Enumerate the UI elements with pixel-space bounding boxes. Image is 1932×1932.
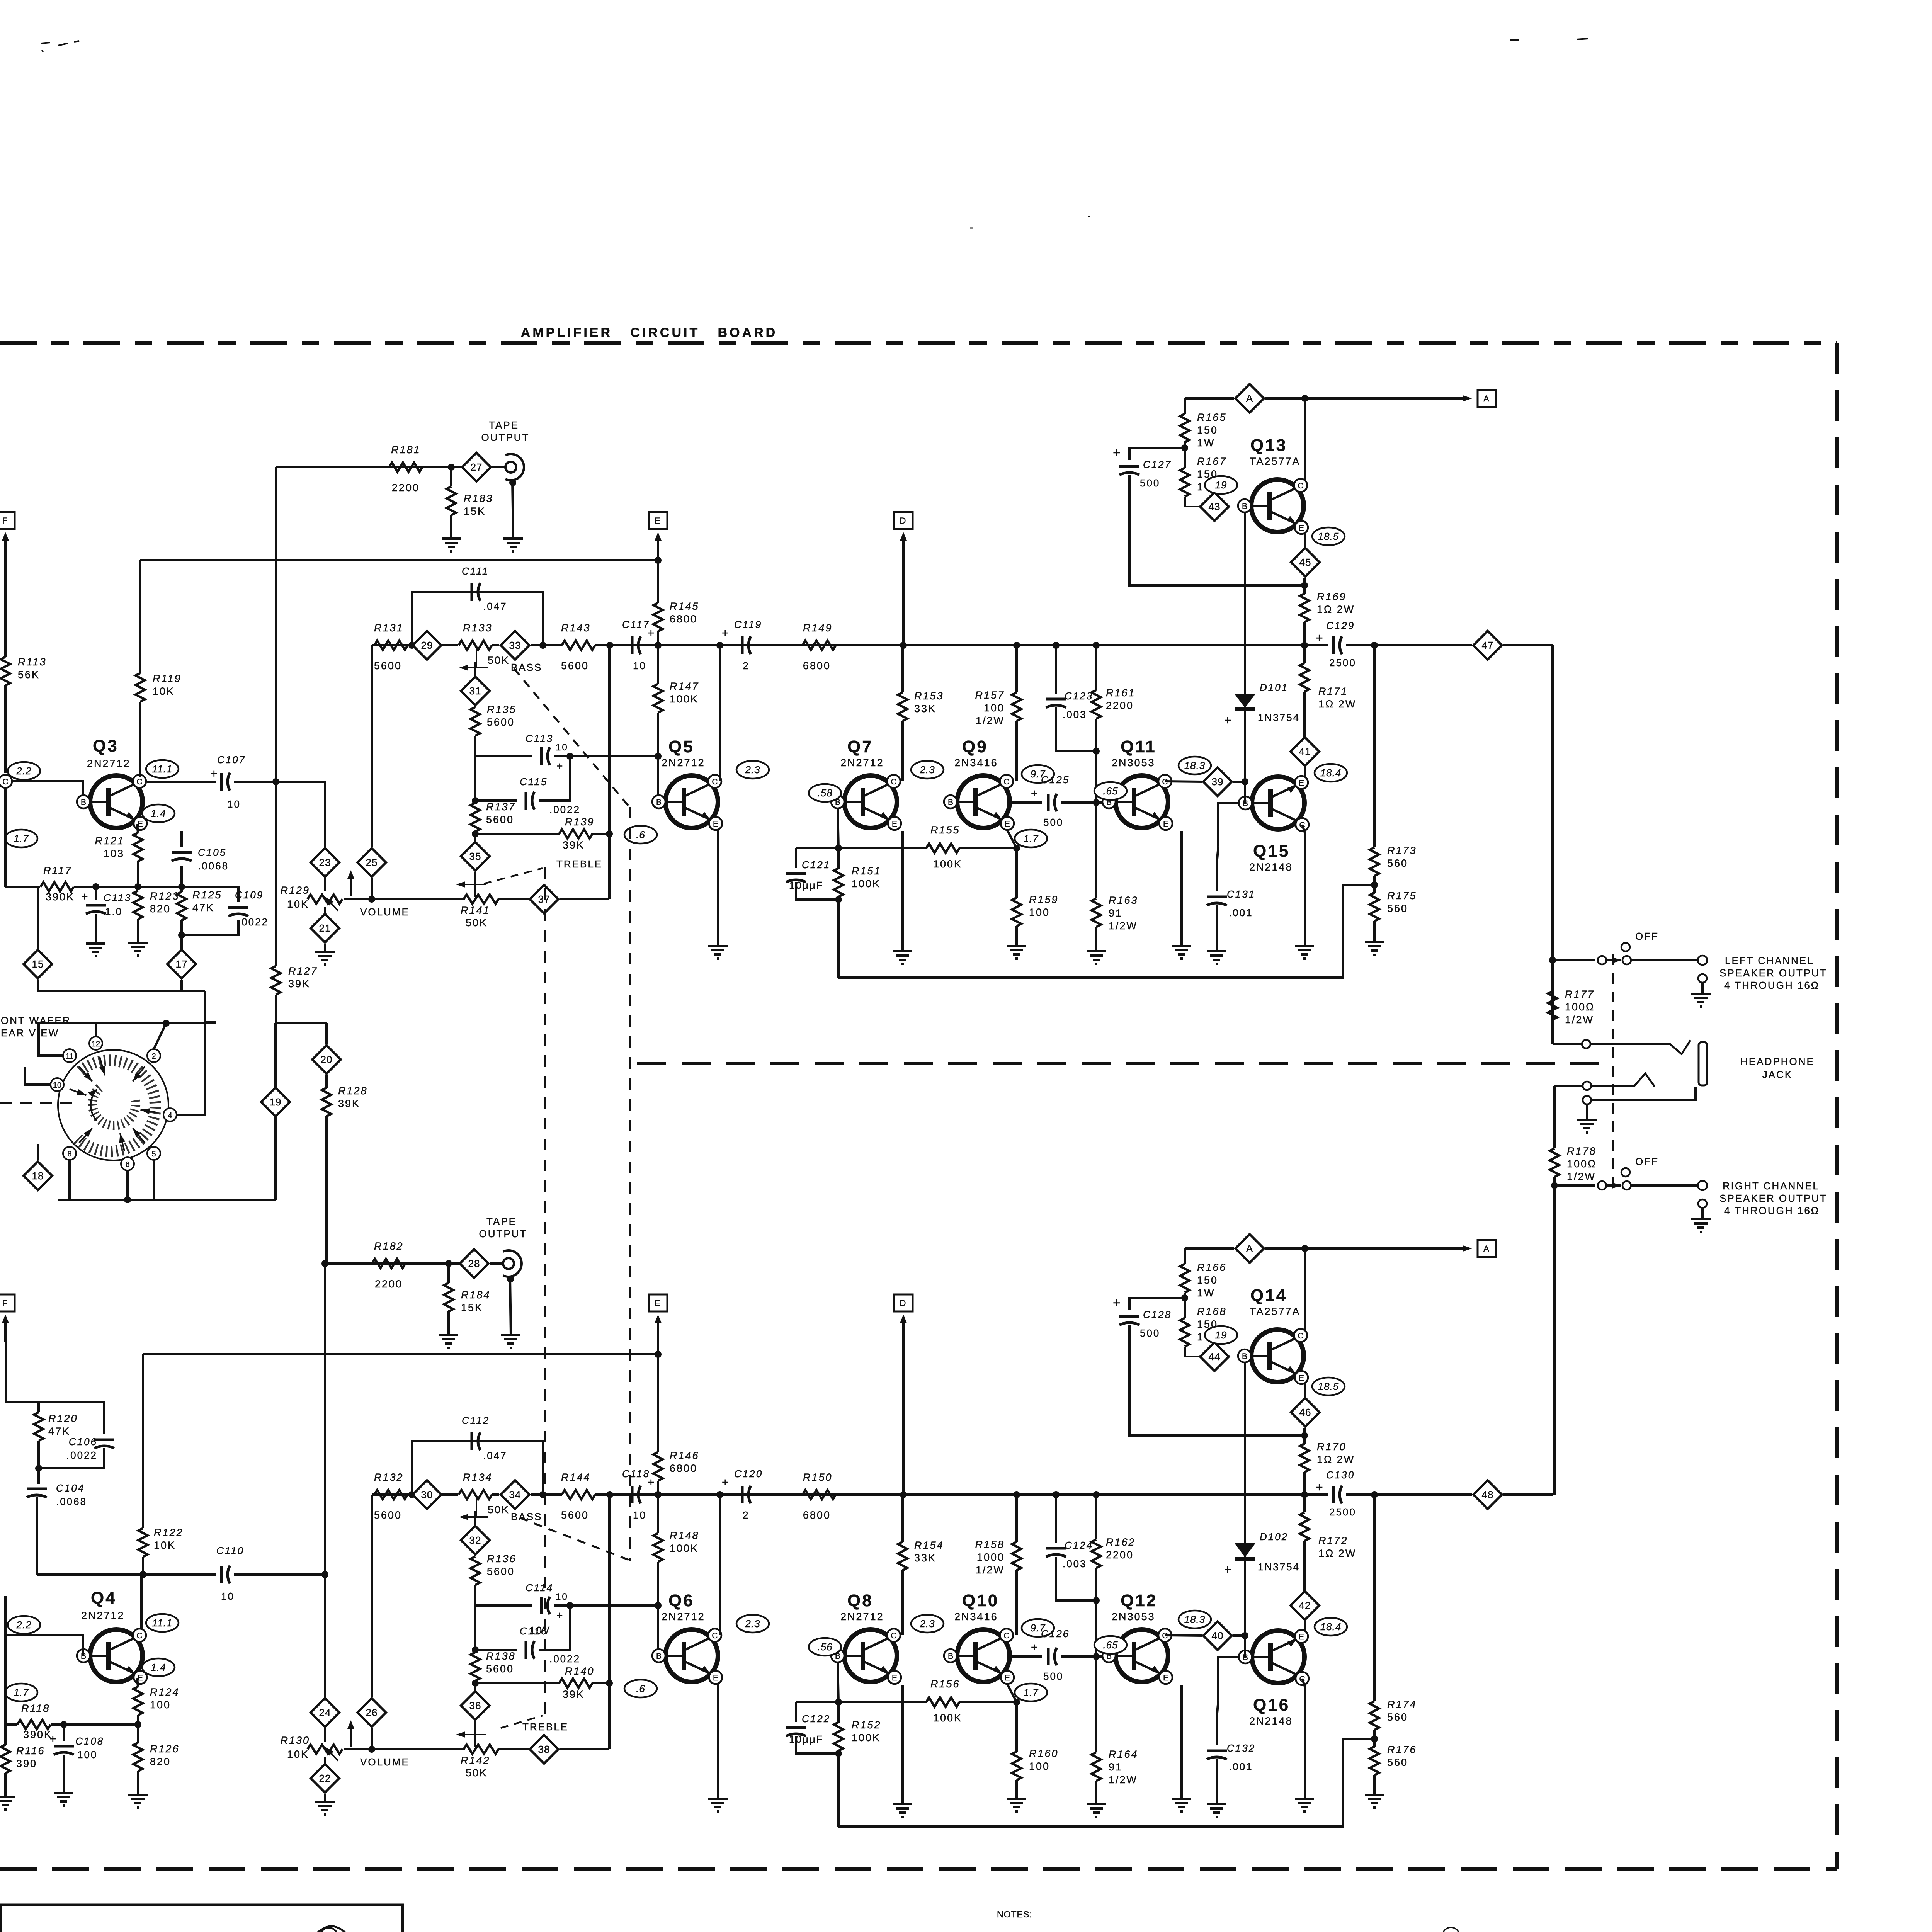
svg-text:R184: R184: [461, 1289, 491, 1301]
resistor R126: [133, 1725, 180, 1795]
resistor R146: [653, 1354, 699, 1495]
svg-text:100K: 100K: [852, 1732, 881, 1743]
wire R125 top: [138, 886, 182, 888]
junction R151 top: [835, 845, 842, 852]
svg-text:R130: R130: [280, 1735, 310, 1746]
connecting diamond 22: [311, 1757, 339, 1793]
treble gang dashes bottom: [501, 1716, 568, 1733]
resistor R128: [322, 1075, 368, 1264]
wire Q15 C down: [1302, 1679, 1305, 1799]
svg-text:E: E: [892, 820, 897, 828]
arrow to box D: [900, 1315, 907, 1495]
ground Q7 emitter: [893, 831, 912, 964]
connecting diamond 42: [1291, 1591, 1319, 1620]
capacitor C126 body: [1031, 1628, 1103, 1682]
connecting diamond 20: [312, 1045, 341, 1074]
svg-text:C: C: [2, 777, 8, 786]
transistor Q5: [652, 737, 722, 830]
svg-text:R152: R152: [852, 1719, 881, 1731]
svg-text:E: E: [713, 1673, 718, 1682]
svg-text:50K: 50K: [466, 1767, 488, 1779]
svg-text:+: +: [1031, 787, 1039, 800]
wire diamond to Q15 junction: [1233, 781, 1245, 783]
junction R165/R167: [1181, 444, 1188, 451]
wire diamond 15 up: [37, 887, 39, 949]
wire hp2 left: [1554, 1085, 1583, 1087]
junction D101/Q15: [1242, 1632, 1248, 1639]
junction R122/C110 row: [139, 1571, 146, 1578]
svg-text:+: +: [648, 1476, 656, 1489]
svg-text:390K: 390K: [23, 1729, 52, 1740]
svg-text:11.1: 11.1: [152, 763, 173, 775]
wire right speaker out: [1631, 1184, 1698, 1187]
transistor Q10: [944, 1591, 1014, 1684]
resistor R159: [1012, 846, 1059, 946]
wire diamond 37 right: [560, 898, 609, 900]
svg-text:.0022: .0022: [549, 804, 580, 815]
junction R165/R167: [1181, 1294, 1188, 1301]
wire main bus 2: [442, 1493, 458, 1496]
svg-text:R116: R116: [16, 1745, 45, 1757]
connecting diamond 44: [1185, 1342, 1229, 1371]
wire main bus 4: [531, 1493, 562, 1496]
svg-text:E: E: [1163, 1673, 1168, 1682]
svg-text:4: 4: [168, 1111, 172, 1120]
svg-text:.0068: .0068: [56, 1496, 87, 1507]
svg-text:100: 100: [1029, 906, 1050, 918]
resistor R151: [834, 848, 881, 900]
wire main bus 3: [492, 1493, 499, 1496]
svg-text:+: +: [1316, 1480, 1324, 1494]
svg-text:R117: R117: [43, 865, 72, 876]
svg-text:C104: C104: [56, 1482, 85, 1494]
voltage oval .6 at Q6 B: [624, 1680, 657, 1697]
junction bus/C117: [606, 1491, 613, 1498]
arrow to box D: [900, 532, 907, 645]
junction bus/R157: [1013, 642, 1020, 649]
wire tape output feed: [325, 1262, 459, 1265]
voltage oval 11.1 Q3 C: [146, 760, 179, 778]
wire bus to speaker column: [1503, 1493, 1553, 1496]
svg-text:19: 19: [270, 1096, 282, 1108]
front wafer label: [1, 1015, 71, 1039]
connecting diamond 36: [461, 1683, 490, 1720]
resistor R113: [1, 656, 47, 773]
svg-text:1.0: 1.0: [105, 906, 122, 917]
notes heading: [997, 1909, 1032, 1919]
switch circle R1: [1598, 1181, 1606, 1190]
diode D101: [1224, 507, 1300, 782]
svg-text:100: 100: [77, 1749, 97, 1760]
diode D102: [1224, 1357, 1300, 1636]
svg-text:39K: 39K: [288, 978, 310, 990]
resistor R140: [475, 1665, 609, 1700]
svg-text:100K: 100K: [670, 693, 699, 705]
svg-text:NOTES:: NOTES:: [997, 1909, 1032, 1919]
wire d23 to pot: [324, 878, 326, 891]
junction tape: [445, 1260, 452, 1267]
wire Q7 B down: [838, 808, 838, 848]
wire B+ feed: [140, 559, 658, 561]
channel divider dashed line: [637, 1062, 1613, 1065]
wire volume row: [344, 1748, 464, 1750]
headphone spring bottom: [1591, 1073, 1655, 1087]
wire Q15 B feedback: [1218, 1657, 1239, 1700]
svg-text:39K: 39K: [338, 1098, 360, 1109]
svg-text:B: B: [656, 1652, 662, 1661]
svg-text:R122: R122: [154, 1527, 184, 1538]
wire main bus 6: [1245, 1493, 1328, 1496]
svg-text:10: 10: [221, 1590, 235, 1602]
ground right speaker: [1691, 1208, 1711, 1232]
svg-text:39K: 39K: [563, 1689, 585, 1700]
TO-3 case outline: [276, 1926, 384, 1932]
voltage oval 2.3 at Q5 C: [736, 761, 769, 779]
wire Q13 C up: [1304, 1248, 1306, 1330]
svg-text:R129: R129: [280, 884, 310, 896]
svg-text:6800: 6800: [670, 613, 697, 625]
wire wafer pin8: [68, 1160, 71, 1200]
svg-text:EAR VIEW: EAR VIEW: [1, 1027, 59, 1039]
svg-text:5600: 5600: [561, 660, 589, 672]
contact circle hp1: [1582, 1040, 1590, 1048]
junction tape: [448, 464, 455, 471]
wire wafer pin2: [154, 1023, 166, 1049]
svg-text:C: C: [891, 777, 896, 786]
wire to bottom bus: [837, 900, 840, 978]
resistor R136: [471, 1553, 517, 1585]
svg-text:50K: 50K: [466, 917, 488, 929]
svg-text:R150: R150: [803, 1471, 833, 1483]
svg-text:100K: 100K: [933, 858, 962, 870]
svg-text:.0068: .0068: [198, 860, 229, 872]
connecting diamond 40: [1203, 1621, 1232, 1650]
wire diamond 17 up: [180, 935, 183, 949]
transistor Q8: [831, 1591, 901, 1684]
voltage oval 18.5: [1312, 527, 1345, 545]
svg-text:.56: .56: [817, 1641, 832, 1653]
wire diamond19 down: [274, 1117, 277, 1200]
svg-text:1/2W: 1/2W: [1109, 920, 1138, 932]
capacitor C116: [520, 1625, 580, 1665]
voltage oval 18.4: [1315, 1618, 1347, 1636]
svg-text:E: E: [1299, 779, 1304, 787]
resistor R150: [803, 1471, 836, 1521]
wire tape-2 vertical: [324, 1264, 326, 1575]
resistor R184: [444, 1264, 491, 1335]
svg-text:2200: 2200: [375, 1278, 403, 1290]
capacitor C126: [1012, 1655, 1042, 1658]
junction R121/R123: [134, 883, 141, 890]
svg-text:C113: C113: [526, 733, 553, 744]
voltage oval 11.1 Q4: [146, 1614, 179, 1632]
dashed border right: [1835, 343, 1839, 1869]
note 7: [1425, 1927, 1758, 1932]
svg-text:C109: C109: [235, 889, 264, 901]
connecting diamond 41: [1291, 737, 1319, 766]
svg-text:10K: 10K: [287, 1748, 309, 1760]
wafer pin 6: [117, 1133, 134, 1170]
voltage oval 19: [1205, 1326, 1237, 1344]
switch circle L1: [1598, 956, 1606, 964]
connecting diamond 46: [1291, 1384, 1320, 1427]
svg-text:TREBLE: TREBLE: [522, 1721, 568, 1733]
junction bass bridge left: [408, 642, 415, 649]
junction R117/C113: [92, 883, 99, 890]
svg-text:C112: C112: [462, 1415, 490, 1426]
svg-text:C111: C111: [462, 565, 489, 577]
B+ box F: [0, 1294, 15, 1311]
headphone jack label: [1740, 1056, 1815, 1080]
svg-text:R131: R131: [374, 622, 404, 634]
svg-text:E: E: [1005, 820, 1010, 828]
svg-text:1.7: 1.7: [14, 833, 29, 844]
svg-text:VOLUME: VOLUME: [360, 1756, 410, 1768]
capacitor C132: [1207, 1700, 1255, 1804]
svg-text:1/2W: 1/2W: [1565, 1014, 1594, 1026]
ground Q15 C: [1295, 1799, 1314, 1811]
resistor R163: [1092, 803, 1138, 951]
capacitor C125: [1012, 801, 1042, 804]
svg-text:1Ω 2W: 1Ω 2W: [1317, 1454, 1355, 1465]
svg-text:C: C: [712, 777, 718, 786]
svg-text:E: E: [655, 516, 662, 526]
svg-text:OUTPUT: OUTPUT: [479, 1228, 527, 1240]
svg-text:+: +: [722, 627, 730, 639]
connecting diamond 23: [311, 848, 339, 877]
wire C110 right: [234, 1573, 325, 1576]
B+ box F: [0, 512, 15, 529]
svg-text:Q12: Q12: [1121, 1591, 1157, 1610]
junction Q4 collector: [139, 1571, 146, 1578]
wire main bus 7: [1346, 1493, 1472, 1496]
svg-text:31: 31: [469, 685, 481, 697]
resistor R183: [447, 467, 493, 539]
svg-text:40: 40: [1212, 1630, 1224, 1641]
voltage oval .56 at Q8 B: [809, 1638, 841, 1656]
wire treble top: [475, 1649, 517, 1651]
svg-text:390K: 390K: [46, 891, 75, 903]
bass gang diagonal bottom: [520, 1518, 630, 1560]
svg-text:2500: 2500: [1329, 1506, 1356, 1518]
svg-text:E: E: [892, 1673, 897, 1682]
voltage oval 2.2 Q3: [8, 762, 40, 780]
svg-text:10: 10: [556, 742, 568, 753]
resistor R169: [1300, 578, 1355, 645]
volume arrow: [323, 1720, 410, 1768]
svg-text:D: D: [900, 1298, 907, 1308]
connecting diamond 38: [530, 1735, 558, 1764]
transistor Q7: [831, 737, 901, 830]
resistor R139: [475, 816, 609, 851]
svg-text:6: 6: [125, 1160, 129, 1169]
treble potentiometer R142: [461, 1745, 498, 1779]
wire wafer top row: [62, 1022, 96, 1024]
ground R163: [1087, 951, 1106, 964]
capacitor C114: [475, 1582, 662, 1636]
junction bus/D: [900, 1491, 907, 1498]
svg-text:A: A: [1483, 394, 1490, 403]
note 1: [997, 1931, 1344, 1932]
svg-text:Q15: Q15: [1253, 842, 1290, 861]
junction E line bottom: [1301, 582, 1308, 589]
svg-text:R155: R155: [930, 824, 960, 836]
svg-text:R141: R141: [461, 905, 490, 916]
wafer hatched rotor inner: [92, 1088, 136, 1126]
svg-text:1.7: 1.7: [14, 1687, 29, 1698]
wire main bus: [372, 644, 412, 646]
svg-text:C105: C105: [198, 847, 226, 858]
svg-text:C123: C123: [1065, 690, 1093, 702]
treble gang dashed line: [544, 867, 546, 1714]
ground left speaker: [1691, 983, 1711, 1007]
svg-text:R119: R119: [153, 673, 182, 684]
svg-text:C: C: [136, 1631, 142, 1640]
svg-text:+: +: [722, 1476, 730, 1489]
left channel label: [1719, 955, 1827, 991]
voltage oval .58 at Q7 B: [809, 784, 841, 802]
svg-text:F: F: [2, 1298, 9, 1308]
svg-text:2N2148: 2N2148: [1249, 861, 1293, 873]
resistor R175: [1370, 876, 1417, 942]
svg-text:D: D: [900, 516, 907, 526]
scan specks top: [41, 39, 1588, 228]
resistor R176: [1370, 1730, 1417, 1795]
transistor Q14: [1238, 1286, 1308, 1384]
resistor R164: [1092, 1656, 1138, 1804]
resistor R156: [926, 1678, 962, 1724]
wire Q9 E down: [1007, 1684, 1017, 1702]
wire Q15 B left: [1245, 782, 1246, 803]
treble label: [484, 858, 602, 884]
wire switch to diamond19: [274, 1023, 277, 1087]
svg-text:+: +: [1031, 1641, 1039, 1654]
svg-text:TA2577A: TA2577A: [1250, 1306, 1301, 1317]
svg-text:R162: R162: [1106, 1536, 1136, 1548]
ground R159: [1007, 1799, 1026, 1811]
contact circle hp3: [1583, 1096, 1591, 1104]
wire Q11 C to diamond: [1165, 1635, 1202, 1636]
svg-text:R153: R153: [914, 690, 944, 702]
wafer pin 12: [89, 1037, 108, 1076]
voltage oval 1.4 Q3 E: [142, 804, 175, 822]
svg-text:C: C: [136, 777, 142, 786]
wire d25 to volume row: [371, 1728, 373, 1749]
capacitor C125 body: [1031, 774, 1103, 828]
svg-text:C121: C121: [802, 859, 830, 871]
svg-text:+: +: [556, 1609, 564, 1621]
svg-text:B: B: [656, 798, 662, 807]
contact circle hp2: [1583, 1082, 1591, 1090]
svg-text:100Ω: 100Ω: [1565, 1001, 1595, 1013]
svg-text:E: E: [1005, 1673, 1010, 1682]
transistor Q6: [652, 1591, 722, 1684]
resistor R177: [1548, 960, 1595, 1044]
svg-text:10: 10: [633, 1509, 646, 1521]
TO-3 hole top: [320, 1928, 338, 1932]
svg-text:100K: 100K: [933, 1712, 962, 1724]
connecting diamond 26: [357, 1698, 386, 1727]
transistor Q13: [1238, 436, 1308, 534]
wire diamond 15 down: [38, 980, 205, 991]
svg-text:RIGHT CHANNEL: RIGHT CHANNEL: [1723, 1180, 1820, 1192]
volume potentiometer R130: [280, 1735, 342, 1760]
svg-text:R142: R142: [461, 1755, 490, 1766]
voltage oval 2.3 at Q8 C: [911, 1615, 944, 1633]
svg-text:10: 10: [633, 660, 646, 672]
svg-text:A: A: [1483, 1244, 1490, 1253]
svg-text:R182: R182: [374, 1240, 404, 1252]
svg-text:C: C: [1003, 1631, 1009, 1640]
svg-text:+: +: [1224, 1563, 1233, 1577]
wire treble pot to diamond: [498, 1748, 529, 1750]
svg-text:6800: 6800: [803, 660, 831, 672]
junction R151 bottom: [835, 896, 842, 903]
svg-text:91: 91: [1109, 1761, 1122, 1773]
junction R118/C108: [60, 1721, 67, 1728]
svg-text:150: 150: [1197, 424, 1218, 436]
svg-text:560: 560: [1387, 857, 1408, 869]
wire switch R: [1606, 1182, 1621, 1189]
switch circle R2: [1622, 1181, 1631, 1190]
svg-text:AMPLIFIER CIRCUIT BOARD: AMPLIFIER CIRCUIT BOARD: [521, 325, 777, 340]
svg-text:C108: C108: [75, 1735, 104, 1747]
svg-text:1N3754: 1N3754: [1258, 1561, 1300, 1573]
connecting diamond 28: [460, 1249, 488, 1278]
svg-text:1Ω 2W: 1Ω 2W: [1318, 698, 1356, 710]
capacitor C110: [216, 1545, 244, 1602]
wire d25 to volume row: [371, 878, 373, 899]
svg-text:56K: 56K: [18, 669, 40, 680]
voltage oval .65 at Q12 B: [1094, 1636, 1127, 1654]
svg-text:D101: D101: [1260, 682, 1288, 693]
svg-text:500: 500: [1043, 1670, 1063, 1682]
svg-text:103: 103: [104, 848, 124, 859]
svg-text:B: B: [81, 798, 86, 807]
svg-text:R137: R137: [486, 801, 516, 813]
wafer pin 11: [63, 1049, 95, 1083]
wire Q9 E down: [1007, 830, 1017, 848]
wire feedback row: [796, 847, 927, 849]
wafer pin 10: [51, 1078, 87, 1098]
wire treble top right: [539, 1605, 570, 1650]
svg-text:2N2712: 2N2712: [840, 1611, 884, 1622]
capacitor C121: [786, 848, 838, 900]
terminal circle L out: [1698, 956, 1707, 965]
svg-text:36: 36: [469, 1700, 481, 1711]
junction bus/R169: [1301, 642, 1308, 649]
svg-text:18.4: 18.4: [1320, 1621, 1342, 1633]
svg-text:1/2W: 1/2W: [976, 1564, 1005, 1576]
resistor R123: [133, 890, 180, 943]
capacitor C113a: [81, 887, 131, 944]
ground R163: [1087, 1804, 1106, 1817]
svg-text:C130: C130: [1326, 1469, 1355, 1481]
svg-text:.047: .047: [483, 600, 507, 612]
svg-text:R181: R181: [391, 444, 421, 456]
junction feed/E: [655, 1351, 662, 1358]
capacitor C124: [1046, 1495, 1096, 1600]
wire left speaker out: [1631, 959, 1698, 961]
svg-text:2N2712: 2N2712: [662, 1611, 705, 1622]
treble wiper arrow: [456, 872, 486, 897]
wire feedback row2: [959, 847, 1017, 849]
voltage oval .6 at Q5 B: [624, 826, 657, 844]
svg-text:C122: C122: [802, 1713, 830, 1725]
wire diamond41 to Q15 E: [1304, 767, 1306, 780]
resistor R143: [561, 622, 595, 672]
resistor R154: [898, 1495, 944, 1635]
